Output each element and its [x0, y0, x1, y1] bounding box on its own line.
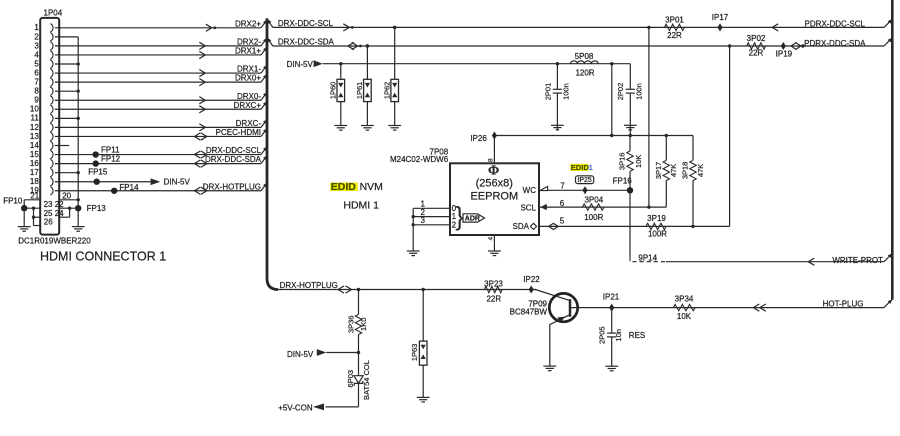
svg-text:7: 7: [560, 181, 565, 190]
svg-text:47K: 47K: [669, 164, 678, 177]
svg-text:(256x8): (256x8): [476, 178, 513, 190]
svg-text:11: 11: [30, 114, 39, 123]
svg-text:DIN-5V: DIN-5V: [287, 350, 314, 359]
svg-text:100n: 100n: [634, 83, 643, 100]
svg-text:DRX0-: DRX0-: [237, 92, 261, 101]
svg-text:4: 4: [487, 236, 494, 240]
svg-text:DRX-DDC-SDA: DRX-DDC-SDA: [278, 38, 335, 47]
svg-text:SDA: SDA: [513, 222, 530, 231]
svg-text:2P01: 2P01: [543, 83, 552, 101]
svg-text:3P18: 3P18: [681, 162, 690, 180]
svg-text:5: 5: [560, 217, 565, 226]
svg-text:IP19: IP19: [776, 50, 793, 59]
svg-text:FP13: FP13: [87, 204, 107, 213]
svg-text:1: 1: [589, 163, 593, 172]
svg-text:DRX0+: DRX0+: [235, 74, 261, 83]
svg-text:1: 1: [34, 23, 39, 32]
svg-text:HDMI 1: HDMI 1: [343, 199, 379, 211]
svg-text:DRX-HOTPLUG: DRX-HOTPLUG: [203, 182, 261, 191]
svg-text:NVM: NVM: [360, 181, 383, 193]
svg-text:3P19: 3P19: [647, 214, 666, 223]
svg-text:FP11: FP11: [101, 146, 120, 155]
svg-text:15: 15: [30, 150, 39, 159]
svg-text:10: 10: [30, 105, 39, 114]
svg-text:22R: 22R: [667, 31, 682, 40]
svg-text:IP26: IP26: [470, 134, 487, 143]
svg-text:ADR: ADR: [465, 216, 480, 223]
svg-text:10n: 10n: [614, 329, 623, 342]
svg-text:16: 16: [30, 159, 39, 168]
svg-text:PDRX-DDC-SCL: PDRX-DDC-SCL: [805, 20, 866, 29]
svg-text:3P36: 3P36: [347, 316, 356, 334]
svg-text:3P34: 3P34: [675, 295, 694, 304]
svg-text:1P60: 1P60: [329, 82, 338, 100]
svg-text:5: 5: [34, 59, 39, 68]
svg-text:9: 9: [34, 96, 39, 105]
svg-text:BC847BW: BC847BW: [510, 308, 548, 317]
svg-text:6P03: 6P03: [346, 370, 355, 388]
svg-text:EDID: EDID: [571, 163, 590, 172]
svg-text:1P04: 1P04: [44, 9, 63, 18]
svg-text:PDRX-DDC-SDA: PDRX-DDC-SDA: [804, 39, 866, 48]
svg-text:DC1R019WBER220: DC1R019WBER220: [18, 236, 91, 245]
svg-text:47K: 47K: [696, 164, 705, 177]
svg-text:4: 4: [34, 50, 39, 59]
svg-text:IP21: IP21: [603, 292, 620, 301]
svg-text:14: 14: [30, 141, 39, 150]
svg-text:9P14: 9P14: [638, 253, 657, 262]
svg-text:17: 17: [30, 168, 39, 177]
svg-text:3P23: 3P23: [484, 280, 503, 289]
svg-text:+5V-CON: +5V-CON: [278, 403, 313, 412]
svg-text:22R: 22R: [486, 294, 501, 303]
svg-text:7: 7: [34, 78, 39, 87]
svg-text:DRX-DDC-SCL: DRX-DDC-SCL: [278, 19, 334, 28]
svg-text:8: 8: [34, 87, 39, 96]
svg-text:3P17: 3P17: [654, 162, 663, 180]
svg-text:DRX1-: DRX1-: [237, 65, 261, 74]
svg-text:DRX-DDC-SDA: DRX-DDC-SDA: [205, 155, 262, 164]
svg-text:FP15: FP15: [88, 168, 108, 177]
svg-text:SCL: SCL: [520, 203, 536, 212]
svg-text:RES: RES: [629, 331, 645, 340]
svg-text:120R: 120R: [575, 69, 594, 78]
svg-text:FP14: FP14: [119, 183, 139, 192]
svg-text:3P16: 3P16: [618, 153, 627, 171]
svg-text:FP12: FP12: [101, 154, 121, 163]
svg-text:3: 3: [421, 216, 426, 225]
svg-text:2P05: 2P05: [598, 326, 607, 344]
svg-text:M24C02-WDW6: M24C02-WDW6: [390, 155, 449, 164]
svg-text:DRX-HOTPLUG: DRX-HOTPLUG: [280, 281, 338, 290]
svg-text:1P61: 1P61: [355, 82, 364, 100]
svg-text:1P62: 1P62: [382, 82, 391, 100]
svg-text:18: 18: [30, 177, 39, 186]
svg-text:6: 6: [34, 68, 39, 77]
svg-text:WRITE-PROT: WRITE-PROT: [832, 256, 883, 265]
svg-text:PCEC-HDMI: PCEC-HDMI: [216, 128, 261, 137]
svg-text:DIN-5V: DIN-5V: [164, 178, 191, 187]
svg-text:DIN-5V: DIN-5V: [287, 60, 314, 69]
svg-text:12: 12: [30, 123, 39, 132]
svg-text:DRX-DDC-SCL: DRX-DDC-SCL: [206, 146, 262, 155]
svg-text:3P02: 3P02: [747, 34, 766, 43]
svg-text:100R: 100R: [584, 213, 603, 222]
svg-text:DRX1+: DRX1+: [235, 47, 261, 56]
svg-text:2: 2: [34, 32, 39, 41]
svg-text:6: 6: [560, 199, 565, 208]
svg-text:FP16: FP16: [613, 176, 633, 185]
svg-text:HOT-PLUG: HOT-PLUG: [823, 299, 864, 308]
svg-text:13: 13: [30, 132, 39, 141]
svg-text:8: 8: [487, 158, 494, 162]
svg-text:5P08: 5P08: [575, 52, 594, 61]
svg-text:2P02: 2P02: [616, 83, 625, 101]
svg-text:1P63: 1P63: [410, 344, 419, 362]
svg-text:FP10: FP10: [3, 197, 23, 206]
svg-text:21: 21: [30, 191, 39, 200]
svg-text:HDMI CONNECTOR 1: HDMI CONNECTOR 1: [40, 249, 166, 263]
svg-text:IP25: IP25: [577, 177, 592, 184]
svg-text:EEPROM: EEPROM: [470, 191, 518, 203]
svg-text:EDID: EDID: [331, 181, 357, 193]
svg-text:WC: WC: [523, 186, 537, 195]
svg-text:100n: 100n: [562, 83, 571, 100]
svg-text:26: 26: [44, 217, 53, 226]
svg-text:3: 3: [34, 41, 39, 50]
svg-text:22R: 22R: [749, 49, 764, 58]
svg-text:3P04: 3P04: [584, 196, 603, 205]
svg-text:3P01: 3P01: [665, 15, 684, 24]
svg-text:DRXC-: DRXC-: [236, 119, 262, 128]
svg-text:10K: 10K: [634, 155, 643, 168]
svg-text:BAT54 COL: BAT54 COL: [362, 360, 371, 400]
svg-text:DRX2-: DRX2-: [237, 38, 261, 47]
svg-text:1K0: 1K0: [359, 318, 368, 331]
svg-text:10K: 10K: [677, 312, 692, 321]
svg-text:IP22: IP22: [523, 275, 540, 284]
svg-text:IP17: IP17: [712, 13, 729, 22]
svg-text:DRXC+: DRXC+: [234, 101, 262, 110]
svg-text:100R: 100R: [648, 230, 667, 239]
svg-text:Φ: Φ: [488, 163, 499, 178]
svg-text:DRX2+: DRX2+: [235, 19, 261, 28]
